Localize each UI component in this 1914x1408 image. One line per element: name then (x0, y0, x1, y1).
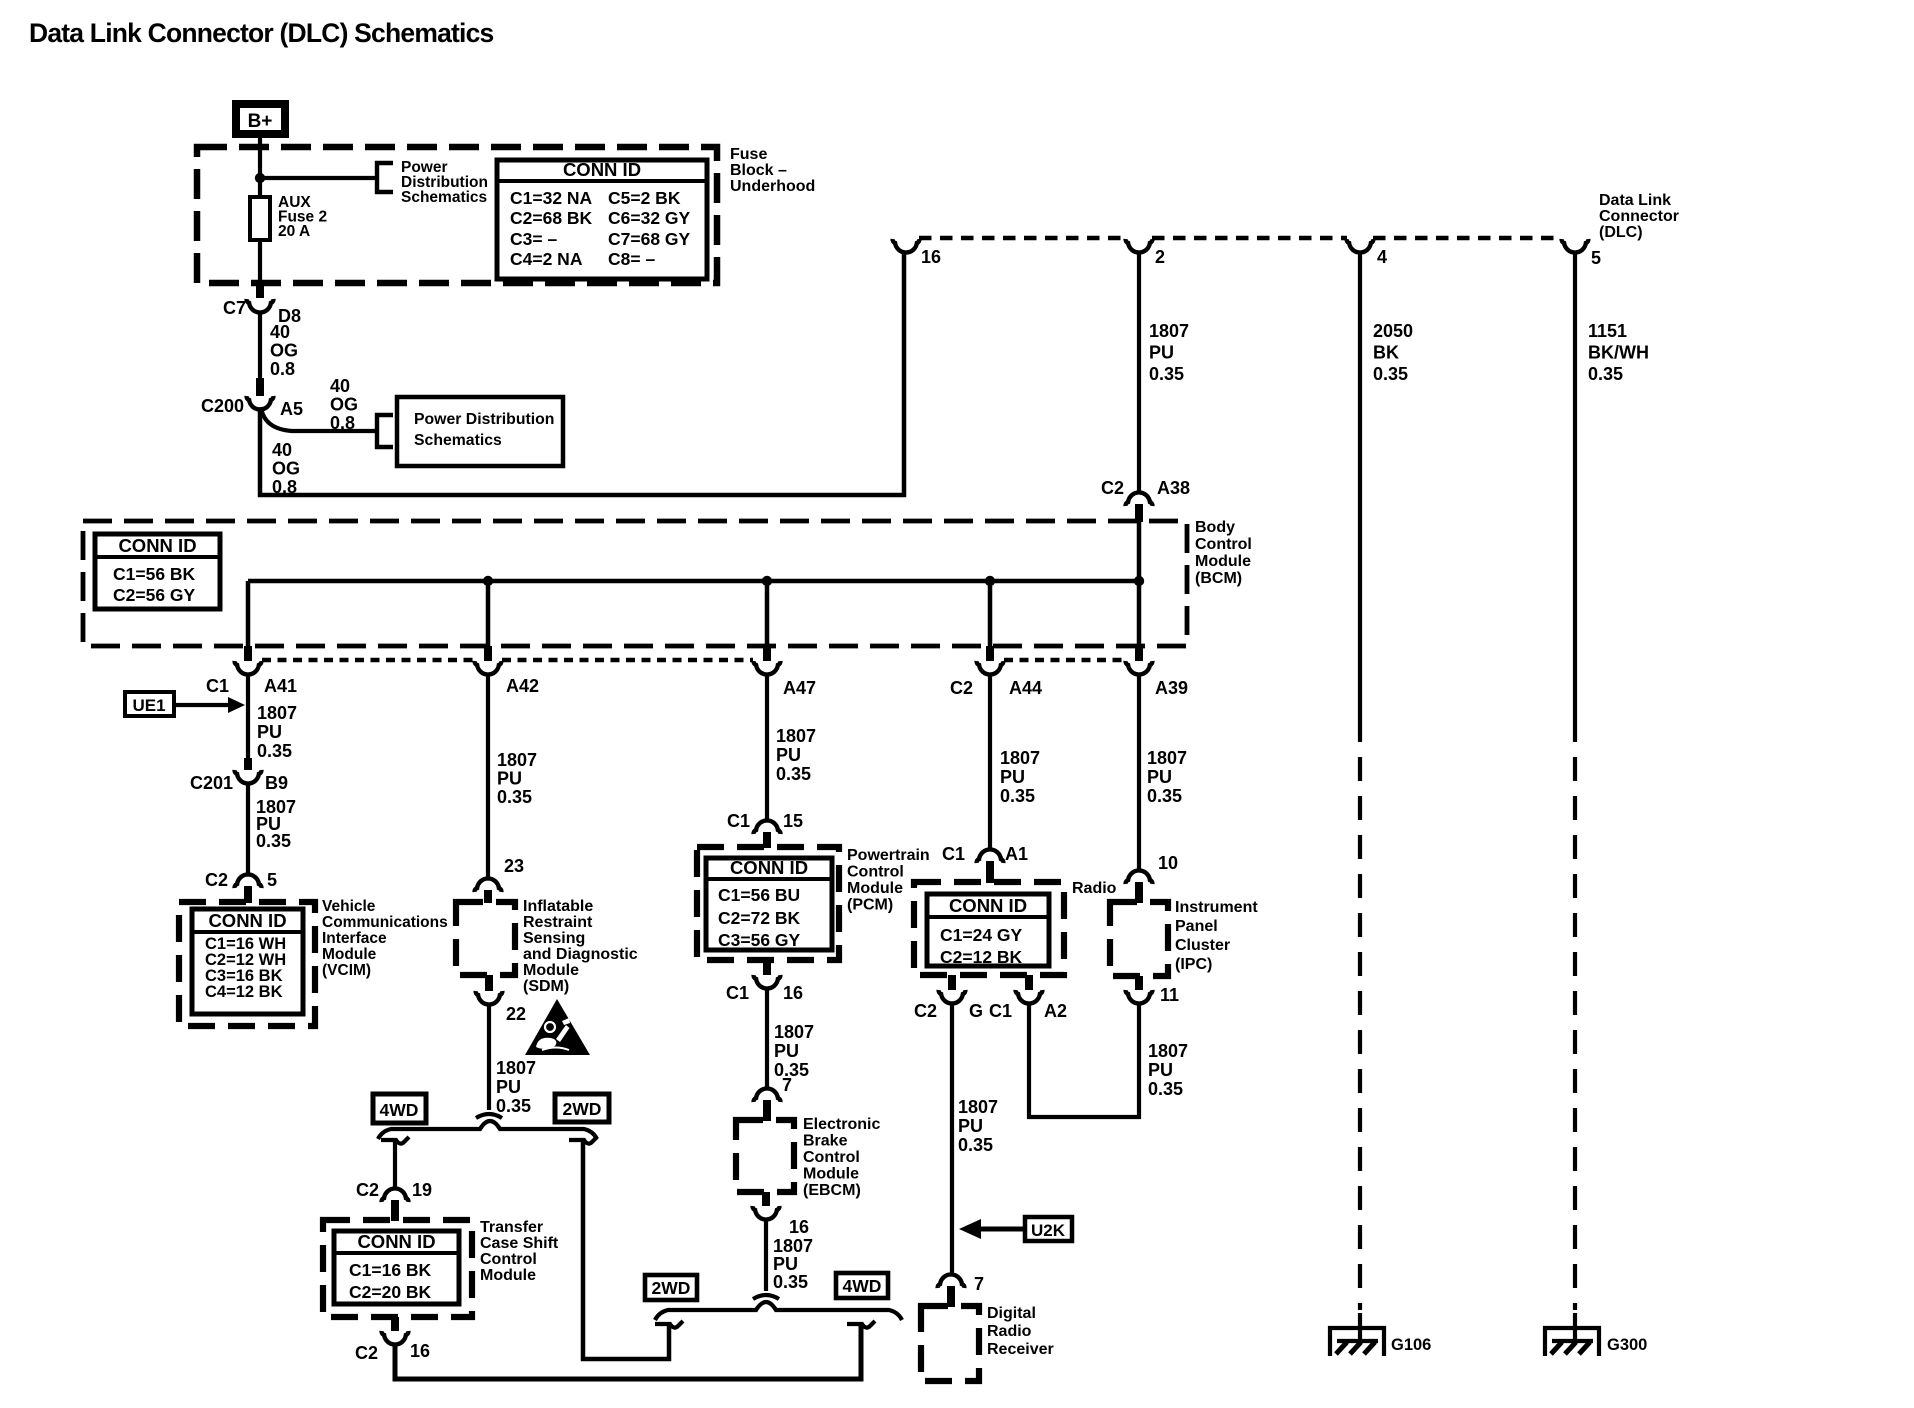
svg-text:Case Shift: Case Shift (480, 1235, 559, 1252)
svg-text:1807: 1807 (1147, 748, 1187, 768)
CONN ID table transfer case (334, 1231, 459, 1304)
svg-text:Digital: Digital (987, 1305, 1036, 1322)
BCM C1 connector dotted line (262, 658, 474, 662)
BCM pin A39 (1135, 646, 1143, 661)
fuse AUX Fuse 2 20 A (250, 197, 270, 240)
svg-text:Control: Control (1195, 536, 1252, 553)
svg-text:1807: 1807 (776, 726, 816, 746)
svg-text:19: 19 (412, 1180, 432, 1200)
svg-text:0.8: 0.8 (270, 359, 295, 379)
svg-text:40: 40 (270, 322, 290, 342)
svg-text:5: 5 (267, 870, 277, 890)
svg-text:C201: C201 (190, 773, 233, 793)
svg-text:Control: Control (480, 1251, 537, 1268)
svg-text:4: 4 (1377, 247, 1387, 267)
svg-text:PU: PU (1149, 343, 1174, 363)
svg-text:(BCM): (BCM) (1195, 570, 1242, 587)
DLC pin 5 (1562, 239, 1589, 253)
DLC pin 4 (1347, 239, 1374, 253)
svg-text:C1=56 BU: C1=56 BU (718, 885, 800, 905)
svg-text:Transfer: Transfer (480, 1219, 543, 1236)
CONN ID table VCIM (192, 909, 303, 1014)
svg-text:C2: C2 (355, 1343, 378, 1363)
svg-text:C1: C1 (726, 983, 749, 1003)
svg-text:Connector: Connector (1599, 208, 1679, 225)
svg-text:C1=56 BK: C1=56 BK (113, 564, 196, 584)
svg-text:7: 7 (974, 1274, 984, 1294)
svg-text:Receiver: Receiver (987, 1341, 1054, 1358)
airbag warning triangle (525, 999, 590, 1055)
svg-text:A1: A1 (1005, 844, 1028, 864)
body control module dashed box (83, 521, 1187, 646)
option label 4WD (373, 1094, 426, 1123)
wire DLC pin 2 to BCM A38 1807 PU 0.35 (1137, 252, 1141, 492)
wire transfer case to 4WD leg of EBCM brace (395, 1326, 861, 1379)
svg-text:PU: PU (1147, 767, 1172, 787)
svg-text:Sensing: Sensing (523, 930, 585, 947)
svg-text:A42: A42 (506, 676, 539, 696)
svg-text:Body: Body (1195, 519, 1235, 536)
connector SDM pin 22 (485, 975, 493, 991)
wire C7 to C200 40 OG 0.8 (258, 312, 262, 380)
svg-text:Module: Module (322, 946, 377, 963)
radio dashed box (914, 882, 1064, 975)
wire A39 to IPC 1807 PU 0.35 (1137, 674, 1141, 870)
BCM pin A44 (986, 646, 994, 661)
wire fuse to connector C7 (258, 240, 262, 284)
svg-text:OG: OG (330, 395, 358, 415)
svg-text:Module: Module (803, 1166, 859, 1183)
svg-text:1807: 1807 (774, 1022, 814, 1042)
svg-text:C1: C1 (942, 844, 965, 864)
power feed B+ terminal (236, 104, 285, 134)
svg-text:B+: B+ (248, 111, 273, 132)
svg-text:5: 5 (1591, 248, 1601, 268)
junction dot A47 (762, 576, 772, 586)
svg-text:C1=16 BK: C1=16 BK (349, 1260, 432, 1280)
CONN ID table radio (927, 894, 1049, 966)
CONN ID table BCM (95, 534, 220, 609)
wire B+ into fuse block (258, 134, 262, 197)
svg-text:C2=72 BK: C2=72 BK (718, 908, 801, 928)
wire A41 to C201 1807 PU 0.35 (246, 674, 250, 760)
svg-text:PU: PU (496, 1077, 521, 1097)
svg-text:C2=68 BK: C2=68 BK (510, 208, 593, 228)
svg-text:Data Link Connector (DLC) Sche: Data Link Connector (DLC) Schematics (29, 18, 494, 48)
svg-text:Vehicle: Vehicle (322, 898, 376, 915)
connector C2 A38 (1126, 492, 1153, 506)
svg-text:Brake: Brake (803, 1133, 848, 1150)
connector IPC pin 11 bottom (1135, 976, 1143, 990)
option brace 2WD/4WD lower (655, 1302, 902, 1320)
instrument panel cluster dashed box (1110, 902, 1168, 976)
svg-text:PU: PU (774, 1041, 799, 1061)
svg-text:(SDM): (SDM) (523, 978, 569, 995)
wire 4WD leg to C2 19 (381, 1137, 409, 1144)
svg-text:Electronic: Electronic (803, 1116, 880, 1133)
wire SDM to 4WD/2WD brace 1807 PU 0.35 (487, 1004, 491, 1110)
svg-text:1807: 1807 (958, 1097, 998, 1117)
electronic brake control module dashed box (736, 1120, 794, 1192)
svg-text:CONN ID: CONN ID (949, 895, 1027, 916)
svg-text:20 A: 20 A (278, 223, 310, 240)
svg-text:16: 16 (921, 247, 941, 267)
wire to power distribution schematics half connector (260, 176, 377, 180)
wire A42 to SDM 1807 PU 0.35 (486, 674, 490, 878)
svg-text:C2: C2 (356, 1180, 379, 1200)
connector EBCM pin 16 bottom (762, 1192, 770, 1206)
svg-text:C3=56 GY: C3=56 GY (718, 930, 801, 950)
svg-text:C2=20 BK: C2=20 BK (349, 1282, 432, 1302)
svg-text:CONN ID: CONN ID (118, 535, 196, 556)
inflatable restraint SDM dashed box (456, 902, 515, 975)
svg-text:BK: BK (1373, 343, 1399, 363)
svg-text:PU: PU (958, 1116, 983, 1136)
svg-text:C7: C7 (223, 298, 246, 318)
wire branch C200-A5 to power distribution (261, 407, 377, 431)
svg-text:0.35: 0.35 (1148, 1079, 1183, 1099)
svg-text:A2: A2 (1044, 1001, 1067, 1021)
svg-text:PU: PU (776, 745, 801, 765)
svg-text:C6=32 GY: C6=32 GY (608, 208, 691, 228)
junction node fuse feed (255, 173, 265, 183)
svg-text:PU: PU (257, 722, 282, 742)
svg-text:A44: A44 (1009, 678, 1042, 698)
svg-text:Restraint: Restraint (523, 914, 593, 931)
ground G106 (1358, 1313, 1362, 1341)
svg-text:C4=2 NA: C4=2 NA (510, 249, 583, 269)
svg-text:1807: 1807 (497, 750, 537, 770)
DLC pin 16 (893, 239, 920, 253)
power distribution schematics box (397, 397, 563, 466)
wire end foot (476, 1114, 502, 1118)
svg-text:(IPC): (IPC) (1175, 956, 1212, 973)
connector digital radio receiver pin 7 (938, 1274, 965, 1288)
wire DLC pin 4 to ground 2050 BK 0.35 (1358, 252, 1362, 718)
svg-text:Schematics: Schematics (401, 189, 487, 206)
svg-text:C2: C2 (914, 1001, 937, 1021)
connector EBCM pin 7 (754, 1088, 781, 1102)
svg-text:40: 40 (272, 440, 292, 460)
svg-text:Schematics: Schematics (414, 432, 502, 449)
svg-text:Instrument: Instrument (1175, 899, 1258, 916)
svg-text:A5: A5 (280, 399, 303, 419)
svg-text:C1: C1 (989, 1001, 1012, 1021)
option label 2WD (555, 1094, 609, 1122)
connector C1 15 PCM (754, 820, 781, 834)
svg-text:Module: Module (847, 880, 903, 897)
wire C200 to DLC pin 16 40 OG 0.8 (260, 252, 904, 495)
svg-text:0.35: 0.35 (773, 1272, 808, 1292)
svg-text:PU: PU (773, 1254, 798, 1274)
svg-text:B9: B9 (265, 773, 288, 793)
svg-text:16: 16 (789, 1217, 809, 1237)
svg-text:OG: OG (272, 459, 300, 479)
connector C200 A5 (256, 378, 264, 396)
svg-text:G106: G106 (1391, 1336, 1431, 1354)
svg-text:G300: G300 (1607, 1336, 1647, 1354)
option label 4WD lower (836, 1273, 888, 1298)
svg-text:Communications: Communications (322, 914, 448, 931)
wire A47 to PCM 1807 PU 0.35 (765, 674, 769, 820)
svg-text:Control: Control (803, 1149, 860, 1166)
connector C2 19 transfer case (382, 1188, 409, 1202)
svg-text:15: 15 (783, 811, 803, 831)
wire end foot EBCM (753, 1295, 779, 1299)
data link connector dotted bus (919, 236, 1126, 240)
CONN ID table PCM (706, 858, 832, 950)
svg-text:CONN ID: CONN ID (357, 1231, 435, 1252)
svg-text:A41: A41 (264, 676, 297, 696)
svg-text:C1=24 GY: C1=24 GY (940, 925, 1023, 945)
svg-text:CONN ID: CONN ID (730, 857, 808, 878)
svg-text:Radio: Radio (987, 1323, 1032, 1340)
svg-text:Power Distribution: Power Distribution (414, 411, 554, 428)
BCM pin A41 (244, 646, 252, 661)
transfer case shift control module dashed box (323, 1220, 472, 1317)
svg-text:BK/WH: BK/WH (1588, 343, 1649, 363)
svg-text:C3= –: C3= – (510, 229, 557, 249)
svg-text:0.8: 0.8 (330, 413, 355, 433)
svg-text:0.35: 0.35 (958, 1135, 993, 1155)
BCM pin A47 (763, 646, 771, 661)
svg-text:C2=12 BK: C2=12 BK (940, 947, 1023, 967)
svg-text:PU: PU (497, 769, 522, 789)
svg-text:16: 16 (410, 1341, 430, 1361)
svg-text:0.35: 0.35 (497, 787, 532, 807)
connector C2 16 transfer case (391, 1317, 399, 1331)
junction dot A44 (985, 576, 995, 586)
option label 2WD lower (645, 1275, 697, 1300)
option brace 4WD/2WD (378, 1121, 597, 1139)
junction dot A39 (1134, 576, 1144, 586)
svg-text:1807: 1807 (1149, 321, 1189, 341)
svg-text:1807: 1807 (773, 1236, 813, 1256)
CONN ID table fuse block underhood (497, 160, 707, 279)
BCM bus wire (248, 579, 1139, 584)
svg-text:0.35: 0.35 (1588, 364, 1623, 384)
svg-text:40: 40 (330, 376, 350, 396)
svg-text:Inflatable: Inflatable (523, 898, 593, 915)
svg-text:1807: 1807 (496, 1058, 536, 1078)
svg-text:A39: A39 (1155, 678, 1188, 698)
digital radio receiver dashed box (921, 1306, 979, 1381)
connector C1 16 PCM bottom (763, 960, 771, 975)
svg-text:CONN ID: CONN ID (563, 159, 641, 180)
connector C2 G radio bottom (948, 975, 956, 990)
svg-text:A47: A47 (783, 678, 816, 698)
svg-text:2050: 2050 (1373, 321, 1413, 341)
half connector power distribution lower (377, 415, 393, 447)
svg-text:Module: Module (1195, 553, 1251, 570)
svg-text:C7=68 GY: C7=68 GY (608, 229, 691, 249)
connector C1 A2 radio bottom (1025, 975, 1033, 990)
svg-text:C1: C1 (206, 676, 229, 696)
wire C201 to VCIM 1807 PU 0.35 (246, 783, 250, 874)
svg-text:Fuse: Fuse (730, 146, 767, 163)
svg-text:Module: Module (480, 1267, 536, 1284)
svg-text:C2: C2 (950, 678, 973, 698)
svg-text:0.35: 0.35 (1147, 786, 1182, 806)
svg-text:and Diagnostic: and Diagnostic (523, 946, 638, 963)
U2K callout (1025, 1217, 1072, 1241)
svg-text:C1=32 NA: C1=32 NA (510, 188, 593, 208)
wire A44 to radio 1807 PU 0.35 (988, 674, 992, 849)
svg-text:(DLC): (DLC) (1599, 224, 1643, 241)
connector C1 A1 radio (977, 849, 1004, 863)
vehicle communications interface module dashed box (179, 902, 315, 1026)
half connector power distribution (377, 163, 393, 192)
wire PCM to EBCM 1807 PU 0.35 (765, 988, 769, 1088)
svg-text:PU: PU (1148, 1060, 1173, 1080)
svg-text:0.35: 0.35 (257, 741, 292, 761)
svg-text:16: 16 (783, 983, 803, 1003)
connector SDM pin 23 (475, 878, 502, 892)
wire EBCM to brace 1807 PU 0.35 (764, 1219, 768, 1291)
ground G300 (1573, 1313, 1577, 1341)
svg-text:7: 7 (782, 1075, 792, 1095)
connector C201 B9 (244, 758, 252, 770)
svg-text:1807: 1807 (1148, 1041, 1188, 1061)
svg-text:(EBCM): (EBCM) (803, 1182, 861, 1199)
BCM pin A42 (484, 646, 492, 661)
svg-text:PU: PU (1000, 767, 1025, 787)
svg-text:Interface: Interface (322, 930, 387, 947)
svg-text:CONN ID: CONN ID (208, 910, 286, 931)
svg-text:0.35: 0.35 (256, 831, 291, 851)
wire radio G to digital radio receiver 1807 PU 0.35 (950, 1003, 954, 1275)
svg-text:Module: Module (523, 962, 579, 979)
svg-text:Cluster: Cluster (1175, 937, 1230, 954)
svg-text:U2K: U2K (1031, 1221, 1066, 1240)
svg-text:Powertrain: Powertrain (847, 847, 930, 864)
connector C7 D8 (256, 280, 264, 298)
svg-text:22: 22 (506, 1004, 526, 1024)
svg-text:Underhood: Underhood (730, 178, 815, 195)
wire radio A2 to IPC 11 (1029, 1002, 1139, 1117)
svg-text:0.35: 0.35 (776, 764, 811, 784)
svg-text:2WD: 2WD (563, 1099, 602, 1119)
svg-text:Data Link: Data Link (1599, 192, 1671, 209)
svg-text:C4=12 BK: C4=12 BK (205, 983, 283, 1001)
DLC pin 2 (1126, 239, 1153, 253)
junction dot A42 (483, 576, 493, 586)
svg-text:C2: C2 (205, 870, 228, 890)
svg-text:0.35: 0.35 (496, 1096, 531, 1116)
wire 2WD leg to EBCM brace (569, 1137, 597, 1144)
svg-text:1807: 1807 (1000, 748, 1040, 768)
svg-text:UE1: UE1 (132, 696, 165, 715)
wire DLC pin 5 to ground 1151 BK/WH 0.35 (1573, 252, 1577, 718)
connector IPC pin 10 (1126, 870, 1153, 884)
svg-text:2: 2 (1155, 247, 1165, 267)
svg-text:Control: Control (847, 864, 904, 881)
svg-text:1151: 1151 (1588, 321, 1627, 341)
svg-text:OG: OG (270, 341, 298, 361)
svg-text:Block –: Block – (730, 162, 787, 179)
connector C2 pin 5 VCIM (235, 874, 262, 888)
svg-text:11: 11 (1160, 985, 1179, 1005)
svg-text:0.35: 0.35 (1149, 364, 1184, 384)
svg-text:10: 10 (1158, 853, 1178, 873)
powertrain control module dashed box (697, 847, 839, 960)
svg-text:A38: A38 (1157, 478, 1190, 498)
fuse block underhood dashed box (197, 147, 717, 283)
svg-text:C200: C200 (201, 396, 244, 416)
svg-text:2WD: 2WD (652, 1278, 691, 1298)
svg-text:C8= –: C8= – (608, 249, 655, 269)
svg-text:4WD: 4WD (843, 1276, 882, 1296)
svg-text:Panel: Panel (1175, 918, 1218, 935)
svg-text:0.35: 0.35 (1000, 786, 1035, 806)
svg-text:1807: 1807 (257, 703, 297, 723)
svg-text:C2: C2 (1101, 478, 1124, 498)
svg-text:0.8: 0.8 (272, 477, 297, 497)
svg-text:Radio: Radio (1072, 880, 1117, 897)
svg-text:0.35: 0.35 (1373, 364, 1408, 384)
svg-text:23: 23 (504, 856, 524, 876)
svg-text:(VCIM): (VCIM) (322, 962, 371, 979)
svg-text:(PCM): (PCM) (847, 897, 893, 914)
svg-text:C1: C1 (727, 811, 750, 831)
UE1 callout (125, 692, 174, 716)
svg-text:4WD: 4WD (380, 1100, 419, 1120)
BCM C2 connector dotted line (1004, 658, 1125, 662)
svg-text:C5=2 BK: C5=2 BK (608, 188, 681, 208)
svg-text:C2=56 GY: C2=56 GY (113, 585, 196, 605)
svg-text:G: G (969, 1001, 983, 1021)
